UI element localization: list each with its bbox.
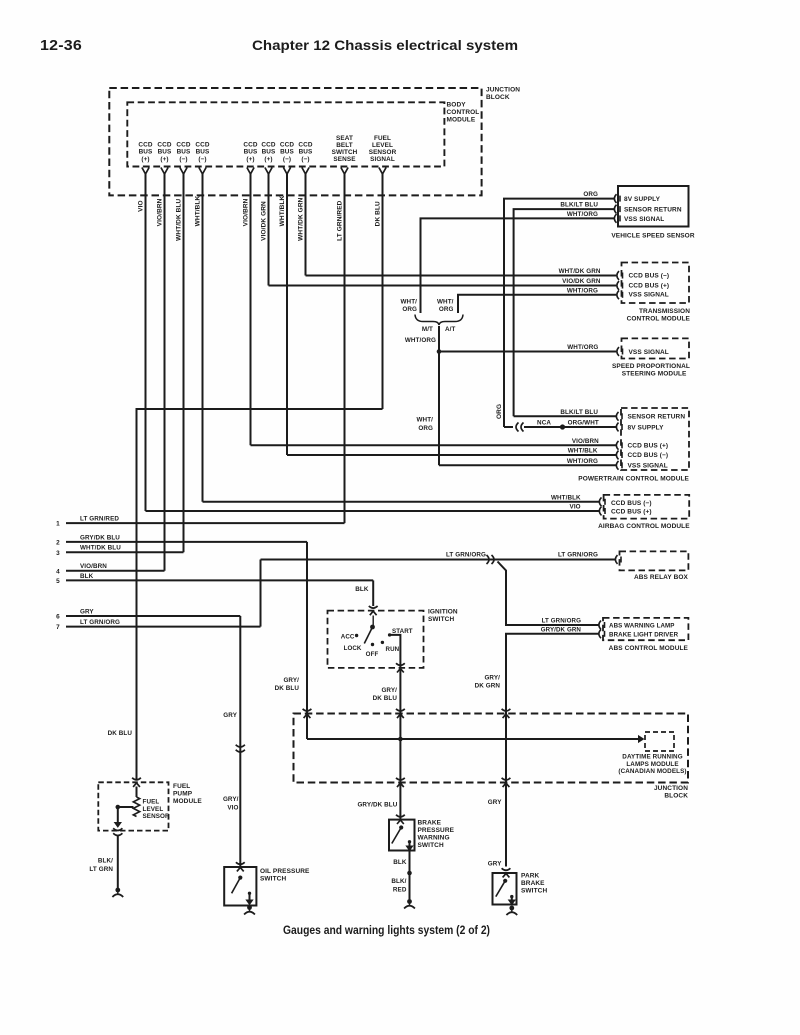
connector GRY/DK BLU ignition into junction block [396, 709, 405, 711]
wire ORG/WHT NCA to PCM 8V supply [504, 426, 513, 428]
connector oil pressure switch input [236, 862, 245, 864]
wire WHT/ORG A/T to TCM VSS signal [458, 295, 616, 313]
svg-text:SENSOR: SENSOR [369, 149, 397, 156]
terminal 3 wire WHT/DK BLU [66, 551, 184, 553]
svg-text:8V SUPPLY: 8V SUPPLY [628, 424, 665, 431]
svg-text:(+): (+) [160, 156, 168, 163]
svg-text:(+): (+) [246, 156, 254, 163]
svg-text:POWERTRAIN CONTROL MODULE: POWERTRAIN CONTROL MODULE [578, 476, 689, 483]
svg-text:CCD BUS (+): CCD BUS (+) [629, 283, 670, 290]
ignition contact ACC [355, 634, 358, 637]
svg-text:CCD: CCD [243, 142, 257, 149]
BCM connector pin at x=250.5 [247, 168, 254, 175]
wire BLK/LT BLU to sensor return [514, 209, 614, 416]
powertrain control module dashed box [621, 408, 689, 470]
ignition contact OFF [371, 643, 374, 646]
terminal 7 wire LT GRN/ORG [66, 626, 261, 628]
svg-text:DK GRN: DK GRN [475, 683, 501, 690]
node splice on 8V supply wire [560, 424, 565, 429]
wire WHT/DK BLU (CCD BUS -) w3 [183, 174, 185, 552]
daytime running lamps module dashed box [645, 732, 674, 751]
svg-text:SIGNAL: SIGNAL [370, 156, 395, 163]
svg-text:WHT/ORG: WHT/ORG [405, 337, 436, 344]
wire BLK drop to ignition switch [372, 580, 374, 606]
svg-text:SPEED PROPORTIONAL: SPEED PROPORTIONAL [612, 363, 690, 370]
svg-text:CCD: CCD [176, 142, 190, 149]
connector TCM CCD+ [617, 281, 619, 290]
ignition contact RUN [381, 641, 384, 644]
BCM connector pin at x=164.5 [161, 168, 168, 175]
connector DK BLU into fuel pump module [132, 778, 141, 780]
terminal 1 wire LT GRN/RED [66, 522, 345, 524]
svg-text:WHT/DK GRN: WHT/DK GRN [559, 268, 601, 275]
svg-text:ORG: ORG [583, 191, 598, 198]
svg-text:ABS CONTROL MODULE: ABS CONTROL MODULE [609, 645, 689, 652]
airbag control module dashed box [604, 495, 690, 519]
wire VIO/DK GRN (CCD BUS +) w6 [268, 174, 270, 286]
svg-text:WHT/: WHT/ [401, 299, 418, 306]
svg-text:(CANADIAN MODELS): (CANADIAN MODELS) [618, 768, 686, 775]
svg-text:WHT/ORG: WHT/ORG [567, 458, 598, 465]
connector airbag CCD+ [599, 507, 601, 516]
svg-text:WHT/ORG: WHT/ORG [567, 211, 598, 218]
connector sensor return [614, 205, 616, 214]
svg-text:BLK: BLK [355, 586, 369, 593]
connector airbag CCD- [599, 497, 601, 506]
svg-text:CCD BUS (−): CCD BUS (−) [629, 273, 670, 280]
vehicle speed sensor box [618, 186, 689, 227]
svg-text:LT GRN/ORG: LT GRN/ORG [80, 619, 120, 626]
svg-text:SWITCH: SWITCH [332, 149, 358, 156]
wire WHT/BLK w4 to airbag CCD BUS (-) [203, 501, 600, 503]
svg-text:ORG: ORG [439, 306, 454, 313]
svg-text:AIRBAG CONTROL MODULE: AIRBAG CONTROL MODULE [598, 523, 690, 530]
svg-text:GRY: GRY [80, 608, 94, 615]
svg-text:BLK/LT BLU: BLK/LT BLU [560, 409, 598, 416]
svg-text:CCD: CCD [195, 142, 209, 149]
BCM connector pin at x=305.5 [302, 168, 309, 175]
BCM connector pin at x=268.5 [265, 168, 272, 175]
svg-text:LEVEL: LEVEL [372, 142, 393, 149]
svg-text:VIO/BRN: VIO/BRN [572, 438, 599, 445]
svg-text:GRY/: GRY/ [283, 677, 299, 684]
svg-text:12-36: 12-36 [40, 38, 82, 54]
svg-text:ORG: ORG [402, 306, 417, 313]
connector GRY/DK BLU out of junction block [396, 778, 405, 780]
svg-text:GRY/DK GRN: GRY/DK GRN [541, 627, 582, 634]
svg-text:BUS: BUS [280, 149, 294, 156]
connector inline double chevron [487, 555, 495, 564]
wire WHT/ORG to SPS VSS signal [439, 351, 616, 353]
wire fuel sensor tap [118, 806, 134, 808]
svg-text:JUNCTION: JUNCTION [486, 87, 520, 94]
svg-text:TRANSMISSION: TRANSMISSION [639, 308, 690, 315]
node WHT/ORG junction [437, 349, 442, 354]
svg-text:STEERING MODULE: STEERING MODULE [622, 371, 687, 378]
ignition contact START [388, 633, 391, 636]
svg-text:VSS SIGNAL: VSS SIGNAL [629, 349, 669, 356]
svg-text:A/T: A/T [445, 326, 455, 333]
connector ignition switch input [369, 606, 378, 608]
svg-text:SENSOR RETURN: SENSOR RETURN [624, 206, 682, 213]
svg-text:IGNITION: IGNITION [428, 609, 458, 616]
connector TCM VSS [617, 290, 619, 299]
BCM connector pin at x=202.5 [199, 168, 206, 175]
svg-text:VIO/DK GRN: VIO/DK GRN [260, 201, 267, 241]
connector ABS relay [615, 555, 617, 564]
oil pressure switch contact [248, 892, 251, 895]
terminal 5 wire BLK [66, 579, 373, 581]
wire LT GRN/ORG riser from terminal 7 [260, 560, 262, 627]
svg-text:CCD BUS (−): CCD BUS (−) [611, 500, 652, 507]
svg-text:BUS: BUS [196, 149, 210, 156]
svg-text:CCD BUS (+): CCD BUS (+) [611, 509, 652, 516]
ignition switch dashed box S1 [328, 611, 424, 668]
connector PCM 8V supply [616, 423, 618, 432]
svg-text:PRESSURE: PRESSURE [418, 827, 455, 834]
svg-text:CCD: CCD [280, 142, 294, 149]
svg-text:5: 5 [56, 578, 60, 585]
wire ORG to 8V supply [504, 199, 614, 427]
BCM connector pin at x=382.5 [379, 168, 386, 175]
wire VIO/BRN (CCD BUS +) w2 [164, 174, 166, 571]
connector ignition switch output [396, 663, 405, 665]
wire WHT/ORG to VSS signal [421, 218, 615, 313]
svg-text:GRY: GRY [223, 712, 237, 719]
wire fuel sensor return drop [117, 807, 119, 824]
connector NCA double chevron [516, 423, 524, 432]
svg-text:DK BLU: DK BLU [373, 695, 398, 702]
svg-text:M/T: M/T [422, 326, 433, 333]
wire WHT/BLK (CCD BUS -) w7 [286, 174, 288, 455]
svg-text:CCD BUS (+): CCD BUS (+) [628, 443, 669, 450]
svg-text:DK BLU: DK BLU [275, 685, 300, 692]
svg-text:BLOCK: BLOCK [486, 94, 510, 101]
connector brake pressure switch input [396, 815, 405, 817]
svg-text:(−): (−) [283, 156, 291, 163]
svg-text:VIO/BRN: VIO/BRN [80, 563, 107, 570]
wire WHT/DK GRN w8 to TCM CCD BUS (-) [306, 275, 617, 277]
svg-text:LT GRN/ORG: LT GRN/ORG [542, 618, 581, 625]
svg-text:SENSOR: SENSOR [143, 813, 171, 820]
svg-text:WHT/: WHT/ [417, 417, 434, 424]
ignition switch lever [372, 616, 374, 626]
oil pressure switch box S2 [224, 867, 256, 906]
svg-text:WHT/ORG: WHT/ORG [567, 287, 598, 294]
park brake switch contact [510, 895, 513, 898]
svg-text:CCD: CCD [261, 142, 275, 149]
brake pressure switch lever [399, 825, 403, 829]
svg-text:RUN: RUN [386, 646, 400, 653]
wire WHT/ORG trunk vertical [438, 326, 440, 465]
fuel level sensor resistor R1 [136, 787, 138, 798]
svg-text:VIO/BRN: VIO/BRN [156, 198, 163, 226]
connector ABS warning lamp [599, 621, 601, 630]
svg-text:VSS SIGNAL: VSS SIGNAL [629, 292, 669, 299]
svg-text:WHT/BLK: WHT/BLK [194, 195, 201, 226]
park brake switch lever [503, 879, 507, 883]
connector PCM CCD+ [616, 441, 618, 450]
svg-text:LT GRN/RED: LT GRN/RED [80, 516, 119, 523]
svg-text:LT GRN/ORG: LT GRN/ORG [558, 551, 598, 558]
svg-text:BLK: BLK [393, 859, 407, 866]
ground G3 brake pressure switch [407, 899, 412, 904]
svg-text:WHT/BLK: WHT/BLK [551, 494, 581, 501]
wire VIO (CCD BUS +) w1 [145, 174, 147, 511]
ground G2 oil pressure switch [247, 905, 252, 910]
svg-text:WARNING: WARNING [418, 835, 450, 842]
ground G4 park brake switch [509, 906, 514, 911]
wire DK BLU fuel level sensor signal w10 [382, 174, 384, 409]
svg-text:VIO: VIO [137, 200, 144, 212]
svg-text:VSS SIGNAL: VSS SIGNAL [624, 216, 664, 223]
svg-text:LT GRN/ORG: LT GRN/ORG [446, 551, 486, 558]
svg-text:VIO/DK GRN: VIO/DK GRN [562, 278, 601, 285]
wire VIO w1 to airbag CCD BUS (+) [146, 510, 600, 512]
svg-text:GRY/DK BLU: GRY/DK BLU [357, 802, 397, 809]
svg-text:BUS: BUS [177, 149, 191, 156]
svg-text:7: 7 [56, 624, 60, 631]
terminal 2 wire GRY/DK BLU [66, 541, 307, 543]
svg-text:BLOCK: BLOCK [664, 793, 688, 800]
connector PCM VSS [616, 461, 618, 470]
junction block (bottom) dashed box [294, 714, 689, 783]
svg-text:(−): (−) [179, 156, 187, 163]
wire VIO/DK GRN w6 to TCM CCD BUS (+) [269, 285, 617, 287]
BCM connector pin at x=287.0 [283, 168, 290, 175]
svg-text:8V SUPPLY: 8V SUPPLY [624, 196, 661, 203]
BCM connector pin at x=344.5 [341, 168, 348, 175]
ABS control module dashed box [603, 618, 688, 640]
svg-text:2: 2 [56, 539, 60, 546]
svg-text:WHT/BLK: WHT/BLK [279, 195, 286, 226]
svg-text:PARK: PARK [521, 873, 540, 880]
svg-text:Gauges and warning lights syst: Gauges and warning lights system (2 of 2… [283, 924, 490, 937]
svg-text:BLK: BLK [80, 573, 94, 580]
terminal 6 wire GRY [66, 615, 240, 617]
junction block (top) dashed box [109, 88, 481, 195]
svg-text:BRAKE: BRAKE [521, 880, 545, 887]
svg-text:FUEL: FUEL [143, 799, 160, 806]
wire WHT/BLK (CCD BUS -) w4 [202, 174, 204, 502]
brake pressure switch contact [408, 840, 411, 843]
svg-text:BLK/: BLK/ [391, 878, 406, 885]
svg-text:VSS SIGNAL: VSS SIGNAL [628, 462, 668, 469]
node junction GRY/DK BLU [398, 737, 403, 742]
svg-text:ORG/WHT: ORG/WHT [568, 420, 599, 427]
node splice BLK/RED [407, 871, 412, 876]
park brake switch box S4 [493, 873, 517, 905]
connector PCM CCD- [616, 451, 618, 460]
svg-text:ORG: ORG [418, 425, 433, 432]
svg-text:BUS: BUS [262, 149, 276, 156]
speed proportional steering module dashed box [622, 338, 690, 358]
wire GRY/DK BLU junction block to brake pressure switch [399, 739, 401, 820]
svg-text:(−): (−) [301, 156, 309, 163]
svg-text:WHT/DK BLU: WHT/DK BLU [175, 198, 182, 240]
wire WHT/BLK w7 to PCM CCD BUS (-) [287, 454, 616, 456]
svg-text:CONTROL: CONTROL [447, 109, 480, 116]
ground G1 fuel pump [115, 888, 120, 893]
wire brake switch output BLK [409, 842, 411, 848]
connector out of fuel pump module [113, 828, 122, 835]
svg-text:BRAKE: BRAKE [418, 820, 442, 827]
svg-text:MODULE: MODULE [173, 798, 202, 805]
svg-text:SEAT: SEAT [336, 135, 353, 142]
oil pressure switch lever [238, 876, 242, 880]
svg-text:BLK/LT BLU: BLK/LT BLU [560, 202, 598, 209]
svg-text:ABS WARNING LAMP: ABS WARNING LAMP [609, 622, 675, 629]
svg-text:CONTROL MODULE: CONTROL MODULE [627, 316, 691, 323]
connector TCM CCD- [617, 271, 619, 280]
svg-text:BLK/: BLK/ [98, 858, 113, 865]
svg-text:DK BLU: DK BLU [374, 201, 381, 226]
svg-text:Chapter 12 Chassis electrical: Chapter 12 Chassis electrical system [252, 38, 518, 54]
svg-text:JUNCTION: JUNCTION [654, 785, 688, 792]
svg-text:LAMPS MODULE: LAMPS MODULE [626, 761, 678, 768]
BCM connector pin at x=145.5 [142, 168, 149, 175]
svg-text:(−): (−) [198, 156, 206, 163]
svg-text:SWITCH: SWITCH [428, 616, 454, 623]
svg-text:GRY/: GRY/ [223, 796, 239, 803]
svg-text:CCD: CCD [298, 142, 312, 149]
fuel pump module dashed box [98, 782, 168, 830]
svg-text:GRY/: GRY/ [381, 687, 397, 694]
brake pressure warning switch box S3 [389, 820, 415, 851]
wire junction block internal to daytime running lamps module [307, 738, 641, 740]
svg-text:LT GRN: LT GRN [89, 866, 113, 873]
wire VIO/BRN w5 to PCM CCD BUS (+) [251, 444, 617, 446]
svg-text:SWITCH: SWITCH [418, 842, 444, 849]
wire GRY drop from terminal 6 to oil pressure switch [239, 616, 241, 866]
svg-text:ORG: ORG [496, 404, 503, 419]
BCM connector pin at x=183.5 [180, 168, 187, 175]
svg-text:OIL PRESSURE: OIL PRESSURE [260, 868, 310, 875]
svg-text:NCA: NCA [537, 420, 551, 427]
svg-text:BUS: BUS [139, 149, 153, 156]
svg-text:1: 1 [56, 521, 60, 528]
svg-text:4: 4 [56, 568, 60, 575]
svg-text:(+): (+) [141, 156, 149, 163]
svg-text:FUEL: FUEL [374, 135, 391, 142]
wire LT GRN/ORG branch to ABS warning lamp [498, 562, 600, 626]
svg-text:CCD: CCD [138, 142, 152, 149]
svg-text:WHT/: WHT/ [437, 299, 454, 306]
wire VIO/BRN (CCD BUS +) w5 [250, 174, 252, 445]
svg-text:SWITCH: SWITCH [260, 876, 286, 883]
svg-text:OFF: OFF [366, 651, 379, 658]
svg-text:GRY: GRY [488, 799, 502, 806]
body control module dashed box U1 [127, 102, 444, 166]
svg-text:VEHICLE SPEED SENSOR: VEHICLE SPEED SENSOR [611, 233, 694, 240]
connector PCM sensor return [616, 412, 618, 421]
svg-text:FUEL: FUEL [173, 783, 190, 790]
svg-text:SENSOR RETURN: SENSOR RETURN [628, 414, 686, 421]
svg-text:GRY/DK BLU: GRY/DK BLU [80, 534, 120, 541]
svg-text:SENSE: SENSE [333, 156, 356, 163]
wire LT GRN/ORG to ABS relay box [261, 559, 616, 561]
svg-text:3: 3 [56, 550, 60, 557]
svg-text:LEVEL: LEVEL [143, 806, 164, 813]
transmission control module dashed box [622, 263, 690, 304]
svg-text:LOCK: LOCK [344, 645, 362, 652]
connector park brake switch input [502, 868, 511, 870]
svg-text:PUMP: PUMP [173, 791, 193, 798]
svg-text:VIO: VIO [570, 504, 581, 511]
connector GRY/DK BLU into junction block [303, 709, 312, 711]
terminal 4 wire VIO/BRN [66, 570, 165, 572]
ABS relay box dashed box [620, 551, 689, 570]
svg-text:BODY: BODY [447, 102, 467, 109]
svg-text:BELT: BELT [336, 142, 353, 149]
svg-text:DK BLU: DK BLU [108, 730, 133, 737]
brace M/T-A/T [415, 315, 463, 326]
svg-text:RED: RED [393, 886, 407, 893]
svg-text:BRAKE LIGHT DRIVER: BRAKE LIGHT DRIVER [609, 632, 679, 639]
connector GRY out of junction block [502, 778, 511, 780]
svg-text:VIO/BRN: VIO/BRN [242, 198, 249, 226]
connector VSS signal [614, 214, 616, 223]
svg-text:DAYTIME RUNNING: DAYTIME RUNNING [622, 754, 682, 761]
wire oil switch to ground [249, 893, 251, 901]
svg-text:(+): (+) [264, 156, 272, 163]
svg-text:BUS: BUS [244, 149, 258, 156]
svg-text:LT GRN/RED: LT GRN/RED [336, 200, 343, 240]
wire park brake switch to ground [511, 897, 513, 902]
svg-text:BUS: BUS [299, 149, 313, 156]
connector SPS VSS [617, 347, 619, 356]
connector GRY/DK GRN into junction block [502, 709, 511, 711]
svg-text:SWITCH: SWITCH [521, 888, 547, 895]
svg-text:GRY: GRY [488, 861, 502, 868]
svg-text:CCD: CCD [157, 142, 171, 149]
connector 8V supply [614, 194, 616, 203]
connector inline GRY [236, 745, 245, 752]
svg-text:WHT/DK GRN: WHT/DK GRN [297, 197, 304, 240]
connector ABS brake light driver [599, 629, 601, 638]
svg-text:MODULE: MODULE [447, 117, 476, 124]
wire WHT/DK GRN (CCD BUS -) w8 [305, 174, 307, 276]
svg-text:VIO: VIO [227, 804, 238, 811]
wire DK BLU jog w10 to left drop [137, 409, 383, 779]
svg-text:6: 6 [56, 614, 60, 621]
wire LT GRN/RED seat belt switch sense w9 [344, 174, 346, 523]
wire BLK/LT GRN to ground [117, 836, 119, 889]
wire BLK/LT BLU to PCM sensor return [514, 415, 616, 417]
svg-text:BUS: BUS [158, 149, 172, 156]
wire START output GRY/DK BLU [390, 635, 401, 739]
svg-text:WHT/ORG: WHT/ORG [567, 344, 598, 351]
svg-text:ACC: ACC [341, 634, 355, 641]
svg-text:CCD BUS (−): CCD BUS (−) [628, 452, 669, 459]
wire GRY/DK BLU riser from terminal 2 [306, 542, 308, 739]
node fuel sensor tap [116, 805, 121, 810]
wire GRY/DK GRN brake light driver [506, 634, 599, 867]
svg-text:WHT/DK BLU: WHT/DK BLU [80, 545, 121, 552]
svg-text:WHT/BLK: WHT/BLK [568, 448, 598, 455]
svg-text:ABS RELAY BOX: ABS RELAY BOX [634, 574, 689, 581]
svg-text:GRY/: GRY/ [484, 675, 500, 682]
wire WHT/ORG trunk to PCM VSS signal [439, 464, 616, 466]
